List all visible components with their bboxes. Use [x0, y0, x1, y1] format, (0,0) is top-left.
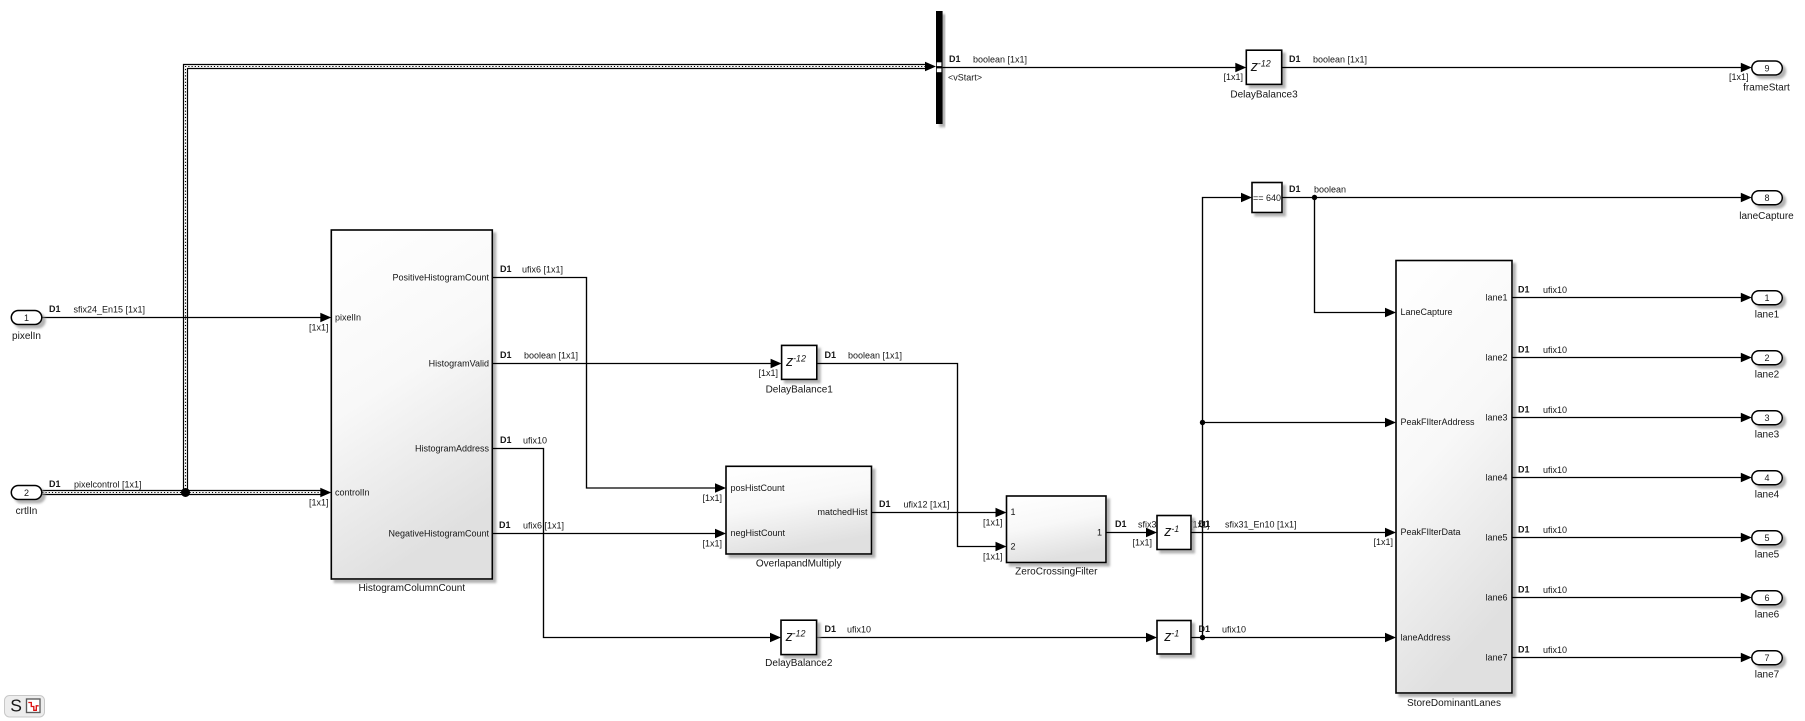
wire upper z-1 to PeakFIlterData [1191, 519, 1396, 547]
svg-text:lane1: lane1 [1485, 293, 1507, 303]
wire laneCapture branch down to LaneCapture input [1315, 198, 1397, 318]
wire matchedHist to ZeroCrossingFilter input 1 [872, 499, 1007, 528]
wire pixelIn to HistogramColumnCount [42, 304, 331, 333]
wire lane5 out [1512, 525, 1752, 543]
svg-text:[1x1]: [1x1] [1132, 538, 1152, 548]
sample time legend badge [5, 696, 45, 718]
svg-text:frameStart: frameStart [1743, 83, 1790, 94]
svg-text:[1x1]: [1x1] [702, 539, 722, 549]
wire bus branch up to Bus Selector [184, 62, 937, 493]
svg-text:ufix10: ufix10 [1222, 625, 1246, 635]
junction dot address to PeakFIlterAddress [1200, 420, 1205, 425]
svg-text:lane7: lane7 [1755, 670, 1780, 681]
svg-text:ufix12 [1x1]: ufix12 [1x1] [904, 500, 950, 510]
block StoreDominantLanes [1396, 261, 1512, 709]
port Inport 1 pixelIn [11, 311, 42, 342]
svg-text:PeakFIlterAddress: PeakFIlterAddress [1401, 417, 1476, 427]
svg-text:crtlIn: crtlIn [16, 506, 38, 517]
port Outport 4 lane4 [1752, 471, 1783, 501]
wire lane4 out [1512, 465, 1752, 483]
svg-text:D1: D1 [1289, 184, 1301, 194]
block ZeroCrossingFilter [1007, 496, 1107, 577]
svg-text:D1: D1 [1518, 285, 1530, 295]
svg-text:D1: D1 [1518, 585, 1530, 595]
svg-text:StoreDominantLanes: StoreDominantLanes [1407, 698, 1501, 709]
wire vStart from bus selector to DelayBalance3 [943, 54, 1247, 83]
port Outport 2 lane2 [1752, 351, 1783, 381]
svg-text:[1x1]: [1x1] [1729, 72, 1749, 82]
svg-text:ufix10: ufix10 [1543, 285, 1567, 295]
svg-text:HistogramColumnCount: HistogramColumnCount [358, 583, 465, 594]
svg-text:9: 9 [1764, 64, 1769, 74]
svg-text:D1: D1 [1518, 465, 1530, 475]
svg-text:[1x1]: [1x1] [983, 518, 1003, 528]
wire HistogramAddress to DelayBalance2 [492, 435, 781, 642]
block OverlapandMultiply [726, 466, 872, 569]
block Compare To Constant eq640 [1252, 183, 1282, 213]
svg-text:lane5: lane5 [1755, 550, 1780, 561]
wire crtlIn bus to controlIn [42, 479, 331, 508]
svg-text:4: 4 [1764, 473, 1769, 483]
svg-text:LaneCapture: LaneCapture [1401, 307, 1453, 317]
svg-text:pixelIn: pixelIn [12, 331, 41, 342]
svg-text:ufix10: ufix10 [1543, 585, 1567, 595]
port Outport 7 lane7 [1752, 651, 1783, 681]
port Outport 5 lane5 [1752, 531, 1783, 561]
wire HistogramValid to DelayBalance1 [492, 350, 781, 378]
wire address net vertical up to eq640 [1203, 193, 1253, 638]
wire HistogramAddress delayed: DelayBalance2 to lower z-1 [817, 624, 1157, 642]
svg-text:6: 6 [1764, 593, 1769, 603]
wire address branch to PeakFIlterAddress [1203, 418, 1397, 427]
svg-text:lane3: lane3 [1755, 430, 1780, 441]
svg-text:boolean [1x1]: boolean [1x1] [973, 55, 1027, 65]
svg-text:== 640: == 640 [1253, 193, 1281, 203]
junction dot address to lower z-1 output [1200, 635, 1205, 640]
port Outport 6 lane6 [1752, 591, 1783, 621]
svg-text:D1: D1 [1518, 405, 1530, 415]
wire eq640 to laneCapture outport [1282, 184, 1752, 202]
svg-text:<vStart>: <vStart> [948, 73, 982, 83]
svg-text:D1: D1 [879, 499, 891, 509]
svg-text:boolean: boolean [1314, 185, 1346, 195]
svg-text:1: 1 [1764, 293, 1769, 303]
svg-text:HistogramAddress: HistogramAddress [415, 444, 490, 454]
svg-text:PositiveHistogramCount: PositiveHistogramCount [392, 273, 489, 283]
svg-text:pixelcontrol [1x1]: pixelcontrol [1x1] [74, 480, 142, 490]
svg-text:[1x1]: [1x1] [983, 552, 1003, 562]
svg-text:DelayBalance1: DelayBalance1 [766, 385, 834, 396]
svg-text:sfix24_En15 [1x1]: sfix24_En15 [1x1] [74, 305, 146, 315]
svg-text:ufix6 [1x1]: ufix6 [1x1] [522, 265, 563, 275]
svg-text:D1: D1 [499, 520, 511, 530]
svg-text:ufix10: ufix10 [1543, 465, 1567, 475]
block DelayBalance1 [766, 345, 834, 395]
svg-text:1: 1 [1097, 528, 1102, 538]
wire PositiveHistogramCount to posHistCount [492, 264, 726, 503]
svg-text:2: 2 [24, 488, 29, 498]
svg-text:OverlapandMultiply: OverlapandMultiply [756, 559, 842, 570]
svg-text:negHistCount: negHistCount [731, 528, 786, 538]
svg-text:ufix10: ufix10 [1543, 405, 1567, 415]
svg-text:D1: D1 [1115, 519, 1127, 529]
svg-text:PeakFIlterData: PeakFIlterData [1401, 527, 1461, 537]
port Outport 3 lane3 [1752, 411, 1783, 441]
svg-text:D1: D1 [1199, 519, 1211, 529]
svg-text:laneCapture: laneCapture [1739, 211, 1794, 222]
port Inport 2 crtlIn [11, 486, 42, 517]
svg-text:D1: D1 [500, 350, 512, 360]
svg-text:D1: D1 [1518, 645, 1530, 655]
block DelayBalance3 [1230, 50, 1298, 100]
svg-text:[1x1]: [1x1] [1373, 537, 1393, 547]
wire lower z-1 to laneAddress [1191, 624, 1396, 642]
svg-text:3: 3 [1764, 413, 1769, 423]
svg-text:boolean [1x1]: boolean [1x1] [848, 351, 902, 361]
wire NegativeHistogramCount to negHistCount [492, 520, 726, 549]
svg-text:D1: D1 [49, 304, 61, 314]
svg-text:[1x1]: [1x1] [758, 368, 778, 378]
svg-text:[1x1]: [1x1] [309, 323, 329, 333]
svg-text:7: 7 [1764, 653, 1769, 663]
svg-text:lane4: lane4 [1485, 473, 1507, 483]
svg-text:ufix10: ufix10 [1543, 345, 1567, 355]
port Outport 8 laneCapture [1739, 191, 1794, 222]
svg-text:[1x1]: [1x1] [309, 498, 329, 508]
svg-text:8: 8 [1764, 193, 1769, 203]
svg-text:HistogramValid: HistogramValid [429, 359, 489, 369]
block Delay lower z-1 [1157, 621, 1191, 655]
svg-text:DelayBalance3: DelayBalance3 [1230, 90, 1298, 101]
svg-text:1: 1 [1011, 507, 1016, 517]
svg-text:ZeroCrossingFilter: ZeroCrossingFilter [1015, 566, 1098, 577]
svg-text:[1x1]: [1x1] [1223, 72, 1243, 82]
junction bus branch dot [181, 488, 190, 497]
svg-text:D1: D1 [500, 264, 512, 274]
bus selector bar [936, 11, 943, 124]
wire ZeroCrossingFilter out to upper z-1 [1106, 519, 1210, 548]
svg-text:boolean [1x1]: boolean [1x1] [1313, 55, 1367, 65]
svg-text:1: 1 [24, 313, 29, 323]
wire lane6 out [1512, 585, 1752, 603]
svg-text:D1: D1 [949, 54, 961, 64]
svg-text:D1: D1 [500, 435, 512, 445]
block Delay upper z-1 [1157, 516, 1191, 550]
svg-text:laneAddress: laneAddress [1401, 633, 1452, 643]
port Outport 9 frameStart [1743, 61, 1790, 94]
svg-text:S: S [10, 696, 22, 716]
svg-text:lane5: lane5 [1485, 533, 1507, 543]
svg-text:[1x1]: [1x1] [702, 493, 722, 503]
svg-text:D1: D1 [1199, 624, 1211, 634]
svg-text:lane7: lane7 [1485, 653, 1507, 663]
svg-text:matchedHist: matchedHist [817, 507, 868, 517]
svg-text:2: 2 [1011, 542, 1016, 552]
svg-text:lane2: lane2 [1485, 353, 1507, 363]
svg-text:ufix10: ufix10 [523, 436, 547, 446]
wire lane1 out [1512, 285, 1752, 303]
wire lane7 out [1512, 645, 1752, 663]
svg-text:D1: D1 [1518, 525, 1530, 535]
junction dot laneCapture branch [1312, 195, 1317, 200]
svg-text:posHistCount: posHistCount [731, 483, 786, 493]
svg-text:DelayBalance2: DelayBalance2 [765, 658, 833, 669]
svg-text:sfix31_En10 [1x1]: sfix31_En10 [1x1] [1225, 520, 1297, 530]
wire DelayBalance1 to ZeroCrossingFilter input 2 [817, 350, 1007, 562]
svg-text:D1: D1 [825, 350, 837, 360]
svg-text:D1: D1 [825, 624, 837, 634]
svg-text:ufix10: ufix10 [847, 625, 871, 635]
svg-text:lane4: lane4 [1755, 490, 1780, 501]
svg-text:NegativeHistogramCount: NegativeHistogramCount [388, 529, 489, 539]
wire lane3 out [1512, 405, 1752, 423]
svg-text:ufix10: ufix10 [1543, 525, 1567, 535]
svg-text:pixelIn: pixelIn [335, 313, 361, 323]
svg-text:2: 2 [1764, 353, 1769, 363]
svg-text:controlIn: controlIn [335, 488, 370, 498]
svg-text:ufix6 [1x1]: ufix6 [1x1] [523, 521, 564, 531]
wire lane2 out [1512, 345, 1752, 363]
svg-text:lane1: lane1 [1755, 310, 1780, 321]
svg-text:boolean [1x1]: boolean [1x1] [524, 351, 578, 361]
svg-text:lane6: lane6 [1755, 610, 1780, 621]
port Outport 1 lane1 [1752, 291, 1783, 321]
svg-text:5: 5 [1764, 533, 1769, 543]
block HistogramColumnCount [331, 230, 492, 594]
svg-text:lane3: lane3 [1485, 413, 1507, 423]
svg-text:D1: D1 [1518, 345, 1530, 355]
block DelayBalance2 [765, 620, 833, 669]
svg-text:lane2: lane2 [1755, 370, 1780, 381]
svg-text:ufix10: ufix10 [1543, 645, 1567, 655]
svg-text:D1: D1 [49, 479, 61, 489]
svg-text:lane6: lane6 [1485, 593, 1507, 603]
wire DelayBalance3 to frameStart [1282, 54, 1752, 82]
svg-text:D1: D1 [1289, 54, 1301, 64]
